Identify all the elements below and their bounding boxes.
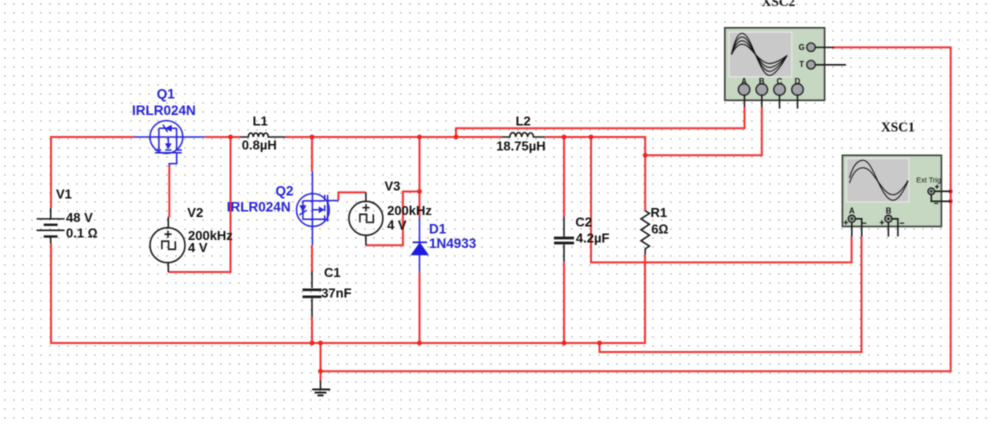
svg-text:200kHz: 200kHz [387, 203, 432, 218]
svg-text:Q2: Q2 [276, 184, 294, 199]
svg-text:L2: L2 [516, 114, 531, 129]
svg-text:37nF: 37nF [321, 286, 351, 301]
svg-text:C1: C1 [324, 265, 341, 280]
svg-text:G: G [799, 43, 805, 52]
svg-text:B: B [886, 207, 892, 216]
svg-text:IRLR024N: IRLR024N [227, 199, 291, 214]
svg-text:V2: V2 [187, 205, 203, 220]
svg-text:6Ω: 6Ω [651, 221, 668, 236]
svg-text:A: A [741, 77, 747, 86]
svg-text:4 V: 4 V [387, 218, 407, 233]
svg-text:C: C [777, 77, 783, 86]
svg-text:Ext Trig: Ext Trig [916, 176, 941, 185]
svg-text:1N4933: 1N4933 [429, 236, 477, 251]
svg-text:C2: C2 [575, 214, 592, 229]
svg-text:L1: L1 [253, 114, 268, 129]
svg-text:V1: V1 [56, 187, 72, 202]
svg-text:XSC1: XSC1 [881, 120, 915, 135]
svg-text:48 V: 48 V [66, 210, 93, 225]
svg-text:B: B [759, 77, 765, 86]
svg-text:R1: R1 [651, 205, 668, 220]
svg-text:D1: D1 [429, 221, 447, 236]
svg-text:4.2µF: 4.2µF [576, 230, 610, 245]
svg-text:Q1: Q1 [157, 87, 176, 102]
svg-text:V3: V3 [385, 178, 401, 193]
svg-text:XSC2: XSC2 [762, 0, 796, 9]
svg-text:A: A [849, 207, 855, 216]
svg-text:4 V: 4 V [188, 240, 208, 255]
svg-text:D: D [795, 77, 801, 86]
svg-text:0.1 Ω: 0.1 Ω [66, 225, 98, 240]
svg-text:0.8µH: 0.8µH [242, 138, 277, 153]
svg-text:18.75µH: 18.75µH [496, 138, 545, 153]
svg-text:IRLR024N: IRLR024N [132, 103, 196, 118]
svg-text:T: T [799, 60, 804, 69]
